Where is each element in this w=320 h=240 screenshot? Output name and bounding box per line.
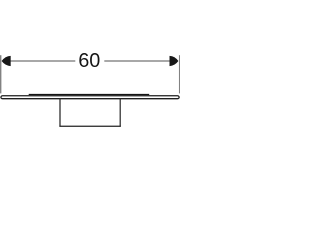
extension line left <box>0 55 2 93</box>
dimension line left segment <box>10 60 75 62</box>
box bottom edge <box>59 125 120 127</box>
box right edge <box>119 99 121 127</box>
thick top surface line <box>29 93 150 95</box>
dimension text 60 <box>79 53 99 67</box>
plate (side view capsule) <box>1 96 179 99</box>
box left edge <box>59 99 61 127</box>
dimension line right segment <box>104 60 170 62</box>
arrowhead left <box>2 56 11 66</box>
extension line right <box>179 55 181 93</box>
arrowhead right <box>170 56 179 66</box>
